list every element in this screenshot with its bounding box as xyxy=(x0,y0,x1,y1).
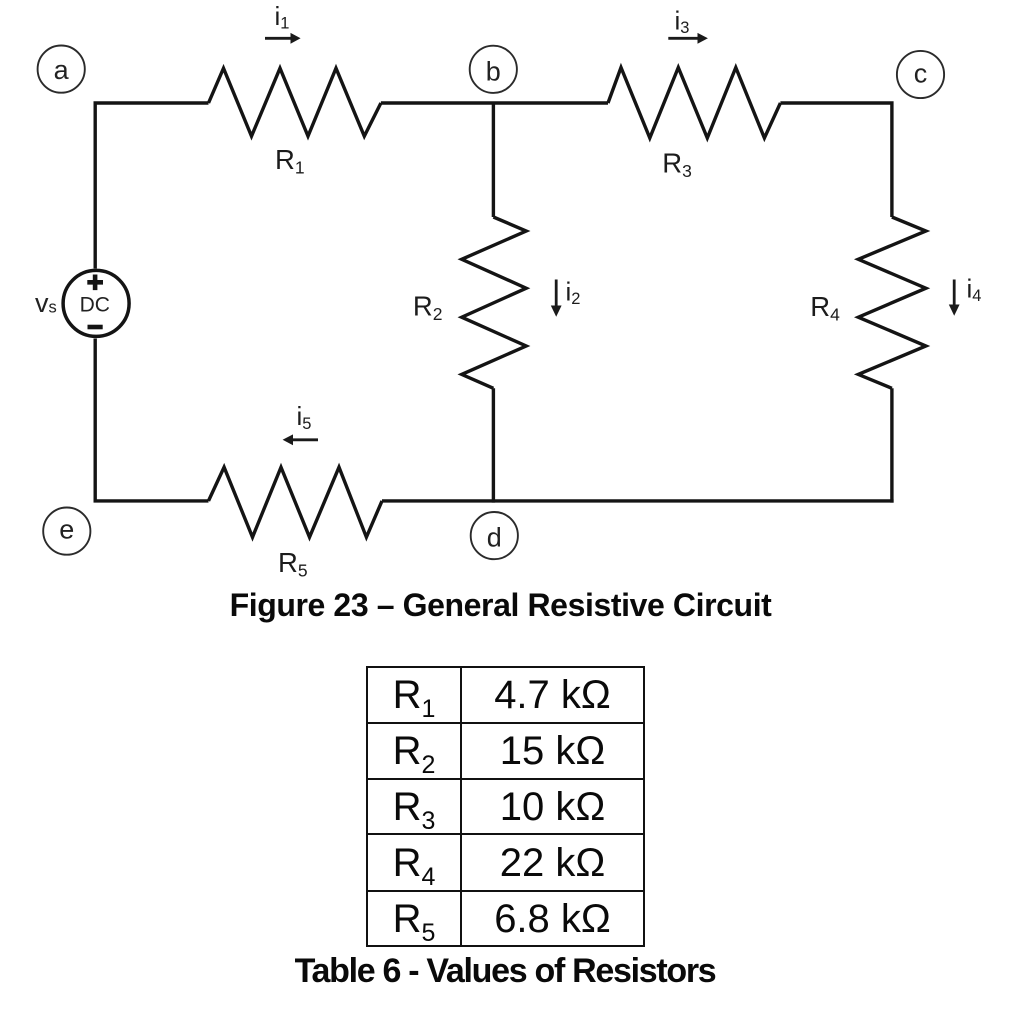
resistor R2 zigzag (vertical) xyxy=(462,217,527,388)
node d xyxy=(471,512,518,559)
table caption xyxy=(0,952,1010,991)
wire: DC source bottom to bottom-left corner (node e) xyxy=(95,339,208,501)
node e xyxy=(43,507,90,554)
svg-text:R4: R4 xyxy=(810,291,840,325)
svg-text:R1: R1 xyxy=(275,144,305,178)
plus mark xyxy=(87,275,103,291)
figure caption xyxy=(0,587,1001,624)
svg-text:d: d xyxy=(487,523,502,553)
wire: R1 to R3 through node b xyxy=(381,101,608,104)
svg-text:e: e xyxy=(59,514,74,544)
wire: node b vertical drop xyxy=(492,103,495,217)
svg-text:i5: i5 xyxy=(297,401,312,433)
wire: R2 bottom to bottom rail xyxy=(492,388,495,502)
svg-text:vs: vs xyxy=(35,288,57,318)
voltage source VS (DC) xyxy=(63,270,129,336)
current arrow i2 xyxy=(551,277,581,317)
circuit schematic: Figure 23 xyxy=(0,0,1024,660)
node c xyxy=(897,51,944,98)
svg-text:i1: i1 xyxy=(275,1,290,33)
current arrow i1 xyxy=(265,1,301,44)
svg-text:R5: R5 xyxy=(278,547,308,581)
svg-text:R2: R2 xyxy=(413,291,443,325)
svg-text:R3: R3 xyxy=(662,148,692,182)
wire: left vertical (node a corner) down to DC source top xyxy=(95,103,208,269)
resistor R4 zigzag (vertical) xyxy=(858,217,926,388)
node a xyxy=(38,46,85,93)
wire: R3 to top-right corner and down (node c) xyxy=(780,103,892,217)
svg-text:b: b xyxy=(486,56,501,86)
table 6: resistor values xyxy=(366,666,645,947)
svg-text:i2: i2 xyxy=(566,277,581,309)
current arrow i5 xyxy=(283,401,318,445)
resistor R1 zigzag xyxy=(209,68,381,136)
resistor R3 zigzag xyxy=(608,68,780,139)
current arrow i3 xyxy=(668,6,708,44)
wire: bottom rail from R5 through node d to right corner xyxy=(382,499,894,502)
resistor R5 zigzag xyxy=(209,467,383,537)
node b xyxy=(470,46,517,93)
svg-text:i3: i3 xyxy=(675,6,690,38)
svg-text:i4: i4 xyxy=(967,273,982,305)
svg-text:a: a xyxy=(54,55,70,85)
svg-text:DC: DC xyxy=(80,294,110,317)
minus mark xyxy=(88,325,103,330)
wire: R4 bottom to bottom rail xyxy=(890,388,893,502)
current arrow i4 xyxy=(949,273,982,315)
svg-text:c: c xyxy=(914,59,928,89)
